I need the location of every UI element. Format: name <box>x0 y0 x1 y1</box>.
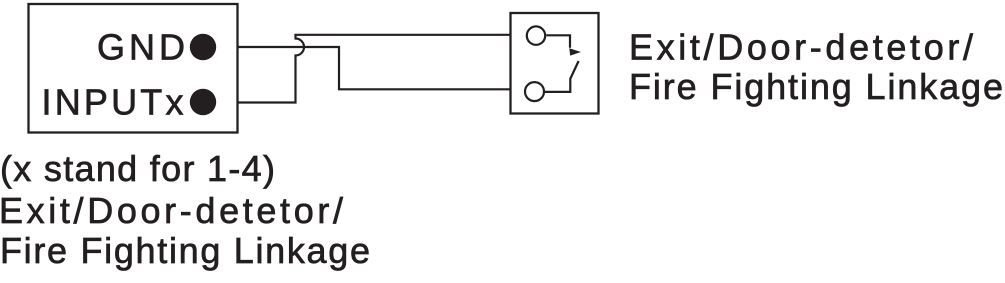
controller terminal box <box>29 4 238 133</box>
switch actuator arrowhead <box>569 48 581 55</box>
svg-text:Fire Fighting Linkage: Fire Fighting Linkage <box>629 66 1003 107</box>
svg-text:INPUTx: INPUTx <box>42 82 184 123</box>
switch top contact lead <box>546 35 570 48</box>
switch top contact circle <box>527 26 545 44</box>
wire GND to switch bottom <box>238 47 511 89</box>
terminal INPUTx dot <box>190 89 216 115</box>
switch blade <box>545 61 579 92</box>
svg-text:Fire Fighting Linkage: Fire Fighting Linkage <box>0 230 370 271</box>
switch box <box>511 13 599 114</box>
wire INPUTx to switch top (with crossover hop) <box>238 35 511 103</box>
svg-text:GND: GND <box>97 27 185 68</box>
terminal GND dot <box>190 34 216 60</box>
switch bottom contact circle <box>525 82 544 101</box>
svg-text:(x stand for 1-4): (x stand for 1-4) <box>0 148 275 189</box>
